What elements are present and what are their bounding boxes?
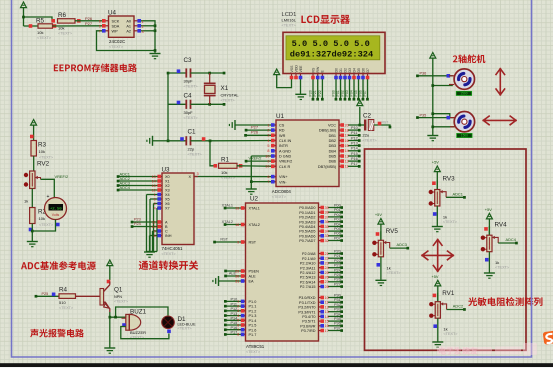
svg-text:RV5: RV5 [386,228,399,235]
svg-text:10k: 10k [221,170,227,175]
svg-text:P1.4: P1.4 [249,319,257,323]
wire [328,249,343,255]
svg-text:P23: P23 [134,218,141,222]
potentiometer RV4 [481,222,518,270]
svg-text:RV1: RV1 [442,290,455,297]
svg-text:+5V: +5V [432,274,439,279]
svg-text:1k: 1k [495,260,499,265]
wire [328,298,343,303]
pin 20 U1 [339,123,349,127]
wire [313,79,319,101]
svg-text:1500: 1500 [460,92,467,96]
svg-text:10k: 10k [39,216,45,221]
pin 3 A2 [134,29,144,34]
svg-text:<TEXT>: <TEXT> [58,32,73,36]
svg-text:5: 5 [237,319,239,323]
svg-text:R5: R5 [36,18,45,25]
svg-text:P14: P14 [351,147,358,151]
svg-text:C2: C2 [363,113,372,120]
svg-text:P26: P26 [334,278,341,282]
svg-text:P22: P22 [334,259,341,263]
servo motor 1 [449,69,474,89]
svg-text:D2: D2 [343,68,347,73]
wire [348,162,361,168]
wire [147,251,158,253]
svg-text:X6: X6 [165,202,170,206]
svg-text:29: 29 [235,269,239,273]
svg-text:D1: D1 [339,68,343,73]
svg-text:R4: R4 [59,286,68,293]
wire [245,124,276,131]
svg-text:+5V: +5V [375,212,382,217]
svg-text:<TEXT>: <TEXT> [246,350,261,354]
pin 8 U1 [267,149,276,153]
transistor Q1 [100,280,129,312]
svg-text:P1.0: P1.0 [249,300,257,304]
svg-text:19: 19 [265,165,269,169]
svg-text:VIN-: VIN- [279,180,287,184]
pin 6 U3 [154,234,162,238]
svg-text:1: 1 [142,20,144,24]
wire [224,331,246,336]
pin 38 U2 [319,210,329,214]
svg-text:1: 1 [267,123,269,127]
resistor R3 [31,141,54,160]
crystal X1 [204,73,240,104]
pin 16 U2 [319,324,329,328]
wire [29,224,34,242]
capacitor C2 [360,113,378,143]
pin 14 U3 [152,179,162,183]
pin 12 U3 [152,188,162,192]
pin 34 U2 [319,229,329,233]
svg-text:P0.4/AD4: P0.4/AD4 [299,225,315,229]
svg-text:P06: P06 [359,90,363,96]
svg-text:EA: EA [249,280,255,284]
svg-text:P2.7/A15: P2.7/A15 [300,285,316,289]
svg-text:P07: P07 [334,236,341,240]
svg-text:DB7(MSB): DB7(MSB) [318,165,337,169]
svg-text:22: 22 [325,257,329,261]
svg-text:8: 8 [267,149,269,153]
svg-text:P35: P35 [334,317,341,321]
wire [154,204,158,252]
svg-text:P2.3/A11: P2.3/A11 [300,266,315,270]
wire [22,16,55,21]
svg-text:32: 32 [325,239,329,243]
svg-text:P37: P37 [334,326,341,330]
power +5V supply (EEPROM) [21,2,27,26]
svg-text:10: 10 [325,296,329,300]
wire [348,126,361,132]
svg-text:33: 33 [325,234,329,238]
wire [117,181,158,187]
svg-text:A2: A2 [126,29,131,33]
svg-text:<TEXT>: <TEXT> [363,139,378,143]
wire [380,257,382,280]
svg-text:12: 12 [152,188,156,192]
wire [213,238,245,244]
svg-text:6: 6 [154,234,156,238]
svg-text:X4: X4 [165,193,170,197]
wire [431,112,449,117]
svg-text:P3.4/T0: P3.4/T0 [302,315,315,319]
pin 25 U2 [319,271,329,275]
svg-text:P33: P33 [334,308,341,312]
svg-text:WP: WP [112,29,119,33]
net VREF/2 from wiper [41,174,69,198]
svg-text:<TEXT>: <TEXT> [188,152,203,156]
svg-text:U1: U1 [276,113,285,120]
wire [209,140,276,143]
svg-text:P24: P24 [334,268,341,272]
svg-text:1: 1 [154,193,156,197]
svg-text:P23: P23 [334,264,341,268]
svg-text:XTAL2: XTAL2 [222,220,233,224]
svg-text:RST: RST [382,120,389,124]
servo 1 readout [456,91,472,95]
capacitor C1 [168,129,210,157]
svg-text:6: 6 [99,19,101,23]
wire [328,282,343,287]
pin 8 U2 [237,333,245,337]
svg-text:2: 2 [267,128,269,132]
pin 11 U2 [319,300,329,304]
wire [328,273,343,279]
svg-text:P1.3: P1.3 [249,314,257,318]
wire [224,326,246,331]
power +5V (RV5) [375,212,384,240]
pin 5 U3 [154,197,162,201]
wire [336,79,342,101]
svg-text:17: 17 [345,134,349,138]
svg-text:20: 20 [345,123,349,127]
svg-text:P32: P32 [334,303,341,307]
svg-text:P13: P13 [351,141,358,145]
pin 5 U2 [237,319,245,323]
wire [354,79,360,101]
led D1 [162,316,196,333]
wire [244,130,276,137]
svg-text:<TEXT>: <TEXT> [39,223,54,227]
pin D3 LCD [348,68,352,79]
svg-text:1k: 1k [443,327,447,332]
svg-text:<TEXT>: <TEXT> [184,116,199,120]
svg-text:510: 510 [59,300,66,305]
svg-text:P25: P25 [42,292,49,296]
svg-text:24: 24 [325,266,329,270]
wire [224,316,246,321]
wire [348,107,361,126]
svg-text:RW: RW [316,66,320,72]
svg-text:1500: 1500 [461,134,468,138]
svg-text:P0.3/AD3: P0.3/AD3 [299,220,315,224]
svg-text:VCC: VCC [328,124,336,128]
svg-text:5.0 5.0 5.0 5.0: 5.0 5.0 5.0 5.0 [292,39,370,49]
wire [153,231,158,252]
pin 16 U1 [339,139,349,143]
svg-text:18: 18 [235,223,239,227]
resistor R5 [29,18,57,41]
svg-text:de91:327de92:324: de91:327de92:324 [290,50,373,60]
ground (RV4) [484,273,495,278]
svg-text:VEE: VEE [299,65,303,73]
svg-text:5: 5 [99,24,101,28]
svg-text:17: 17 [325,329,329,333]
svg-text:P1.7: P1.7 [249,333,257,337]
svg-text:X5: X5 [165,198,170,202]
wire [114,307,168,319]
wire [328,203,343,209]
svg-text:VREF/2: VREF/2 [55,174,69,179]
svg-text:14: 14 [152,179,156,183]
ground (RV3) [432,227,443,232]
svg-text:P00: P00 [332,90,336,96]
svg-text:3: 3 [267,134,269,138]
svg-text:U2: U2 [250,196,259,203]
svg-text:25: 25 [325,271,329,275]
svg-text:<TEXT>: <TEXT> [114,300,129,304]
svg-text:C: C [165,230,168,234]
svg-text:RD: RD [279,129,285,133]
ground (alarm) [104,348,115,353]
pin 18 U1 [339,128,349,132]
pin 7 U1 [267,180,276,184]
capacitor C3 [168,57,225,89]
pin 6 SCK [99,19,109,23]
wire [24,25,39,27]
pin VEE LCD [299,65,303,79]
svg-text:NPN: NPN [114,295,122,299]
svg-text:10: 10 [265,154,269,158]
wire [328,293,343,298]
svg-text:19: 19 [235,206,239,210]
svg-text:P31: P31 [334,298,341,302]
svg-text:35: 35 [325,225,329,229]
wire [328,222,343,227]
svg-text:P22: P22 [318,90,322,96]
svg-text:VSS: VSS [290,65,294,73]
svg-text:P02: P02 [334,213,341,217]
label ADC reference title [21,261,96,270]
svg-text:D5: D5 [357,68,361,73]
svg-text:P34: P34 [334,312,341,316]
svg-text:P3.7/RD: P3.7/RD [301,329,316,333]
svg-text:P27: P27 [85,21,93,26]
svg-text:27: 27 [325,280,329,284]
svg-text:13: 13 [325,310,329,314]
svg-text:<TEXT>: <TEXT> [387,271,402,275]
wire [416,72,453,78]
wire [328,254,343,259]
svg-text:14: 14 [325,315,329,319]
ground (RV5) [375,280,386,285]
power +5V (LCD VSS) [274,69,292,88]
svg-text:A0: A0 [126,19,131,23]
pin 3 U2 [237,309,245,313]
svg-text:P2.2/A10: P2.2/A10 [300,262,316,266]
svg-text:R3: R3 [38,142,47,149]
pin 36 U2 [319,220,329,224]
svg-text:12: 12 [345,160,349,164]
wire [328,303,343,308]
svg-text:P0.5/AD5: P0.5/AD5 [299,230,315,234]
svg-text:P1.1: P1.1 [249,305,257,309]
svg-text:P0.2/AD2: P0.2/AD2 [299,216,315,220]
svg-text:39: 39 [325,206,329,210]
svg-text:ADC4: ADC4 [506,237,517,242]
watermark logo [543,331,553,345]
wire [359,79,365,101]
svg-text:1k: 1k [24,199,28,204]
pin 23 U2 [319,261,329,265]
svg-text:P06: P06 [334,232,341,236]
svg-text:<TEXT>: <TEXT> [37,36,52,40]
pin 13 U2 [319,310,329,314]
svg-text:11: 11 [152,220,156,224]
svg-text:P24: P24 [134,222,141,226]
svg-text:X1: X1 [165,180,170,184]
svg-text:P11: P11 [231,302,237,306]
wire [328,227,343,233]
svg-text:P04: P04 [334,222,341,226]
svg-text:P03: P03 [345,90,349,96]
pin 12 U1 [339,159,349,163]
svg-text:P0.0/AD0: P0.0/AD0 [299,206,315,210]
svg-text:<TEXT>: <TEXT> [39,156,54,160]
wire [328,312,343,317]
svg-text:<TEXT>: <TEXT> [282,23,297,27]
wire [76,295,100,297]
svg-text:C1: C1 [188,129,197,136]
wire [222,204,246,210]
wire [437,318,439,341]
svg-text:DB3: DB3 [329,144,336,148]
wire [318,79,324,101]
svg-text:INTR: INTR [279,144,288,148]
svg-text:<TEXT>: <TEXT> [221,99,236,103]
wire [117,185,158,191]
svg-text:P3.3/INT1: P3.3/INT1 [298,310,315,314]
svg-text:D6: D6 [361,68,365,73]
svg-text:XTAL1: XTAL1 [222,204,233,208]
pin 6 U1 [267,175,276,179]
wire [224,321,246,326]
svg-text:7: 7 [267,180,269,184]
wire [436,206,438,226]
svg-text:P26: P26 [251,130,259,135]
svg-text:34: 34 [325,230,329,234]
svg-text:<TEXT>: <TEXT> [178,326,193,330]
wire [75,20,104,22]
wire [328,308,343,313]
svg-text:X7: X7 [165,207,170,211]
svg-text:10k: 10k [58,26,64,31]
wire [131,218,158,224]
pin 5 U1 [267,144,276,148]
pin 7 WP [99,29,109,33]
svg-text:P16: P16 [351,157,358,161]
label channel switch title [139,260,199,270]
svg-text:P3.5/T1: P3.5/T1 [302,320,315,324]
pin 4 U1 [267,139,276,143]
svg-text:P2.6/A14: P2.6/A14 [300,280,316,284]
pin 11 U1 [339,165,348,169]
ground (servo) [427,136,438,141]
wire [363,79,369,101]
pin 21 U2 [319,252,329,256]
svg-text:11: 11 [345,165,349,169]
svg-text:DB2: DB2 [329,139,336,143]
wire [224,302,246,307]
svg-text:X0: X0 [165,175,170,179]
svg-text:36: 36 [325,220,329,224]
box photoresistor array [365,149,527,350]
wire [328,208,343,213]
wire [348,152,361,158]
pin 27 U2 [319,280,329,284]
svg-text:+2.50: +2.50 [50,207,62,211]
svg-text:P10: P10 [351,126,358,130]
pin D4 LCD [352,68,356,79]
pin 4 U2 [237,314,245,318]
svg-text:P20: P20 [309,90,313,96]
wire [328,218,343,223]
svg-text:22p: 22p [188,146,195,151]
svg-text:<TEXT>: <TEXT> [109,45,124,49]
label LCD title [301,15,349,24]
svg-text:31: 31 [235,279,239,283]
svg-text:9: 9 [237,240,239,244]
pin 22 U2 [319,256,329,260]
svg-text:9: 9 [154,229,156,233]
svg-text:C3: C3 [184,57,193,64]
wire [350,79,356,101]
svg-text:37: 37 [325,215,329,219]
svg-text:<TEXT>: <TEXT> [272,195,287,199]
lcd LM016L body [283,32,385,73]
svg-text:XTAL2: XTAL2 [249,223,260,227]
svg-text:ALE: ALE [249,275,257,279]
svg-text:P01: P01 [336,90,340,96]
svg-text:P3.2/INT0: P3.2/INT0 [298,306,315,310]
pin 11 U3 [152,220,162,224]
wire [167,72,170,143]
svg-text:SDA: SDA [112,24,120,28]
pin RW LCD [316,66,320,79]
svg-text:7: 7 [237,328,239,332]
svg-text:R1: R1 [221,157,230,164]
wire [328,259,343,264]
svg-text:3: 3 [237,309,239,313]
svg-text:DB6: DB6 [329,160,336,164]
wire [237,165,276,168]
pin 26 U2 [319,275,329,279]
power +5V (RV1) [432,274,441,302]
svg-text:1k: 1k [443,215,447,220]
svg-text:4: 4 [237,314,239,318]
svg-text:P1.2: P1.2 [249,309,257,313]
svg-text:10k: 10k [39,149,45,154]
svg-text:16: 16 [325,324,329,328]
svg-text:<TEXT>: <TEXT> [162,252,177,256]
pin 15 U1 [339,144,349,148]
svg-text:P21: P21 [334,254,341,258]
svg-text:P07: P07 [363,90,367,96]
svg-text:VREF/2: VREF/2 [249,157,262,161]
svg-text:13: 13 [152,175,156,179]
wire [328,236,343,241]
